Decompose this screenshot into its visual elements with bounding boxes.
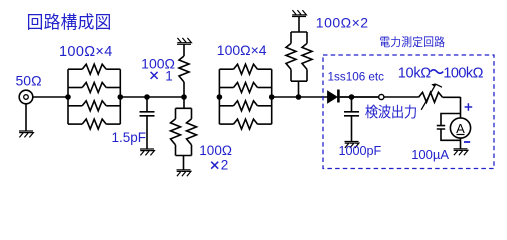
node dot block1 right — [118, 94, 124, 100]
ground below meter — [454, 149, 468, 155]
capacitor 1000pF — [351, 97, 353, 112]
wire VR to meter — [443, 97, 461, 118]
label + — [465, 103, 473, 111]
node dot cap 1.5pF — [144, 94, 150, 100]
svg-text:100µA: 100µA — [411, 147, 449, 162]
ground above 100Ω×2 — [292, 10, 306, 16]
ground above 100Ω×1 — [177, 38, 191, 44]
svg-text:10kΩ: 10kΩ — [398, 65, 431, 81]
ground below 1.5pF — [140, 149, 154, 155]
terminal 検波出力 (open circle) — [379, 94, 384, 99]
ground below 1000pF — [345, 142, 359, 148]
node dot block2 right — [269, 94, 275, 100]
label 検波出力 — [365, 105, 416, 119]
wire connector to ground — [25, 104, 27, 131]
dashed box 電力測定回路 — [323, 55, 494, 169]
wire terminal to potentiometer — [340, 96, 419, 98]
capacitor across meter — [441, 114, 461, 141]
node dot shunt2 — [296, 94, 302, 100]
meter M1 (A) — [450, 118, 470, 138]
svg-text:50Ω: 50Ω — [16, 72, 42, 88]
resistor 100Ω×1 (vertical, to top ground) — [183, 82, 185, 97]
svg-text:1.5pF: 1.5pF — [112, 130, 147, 145]
diode D1 1ss106 — [328, 91, 337, 103]
svg-text:1: 1 — [165, 68, 173, 83]
wire meter to ground — [460, 138, 462, 149]
variable resistor VR1 10kΩ~100kΩ — [419, 92, 443, 102]
svg-text:100Ω: 100Ω — [199, 143, 232, 158]
wire diode to detector node — [340, 96, 379, 98]
svg-text:1ss106 etc: 1ss106 etc — [328, 71, 385, 84]
node dot block1 left — [65, 94, 71, 100]
ground below 100Ω×2 — [177, 170, 191, 176]
wire block2 to shunt2 node — [272, 96, 328, 98]
svg-text:100Ω×4: 100Ω×4 — [217, 42, 267, 58]
label 電力測定回路 — [380, 36, 445, 47]
node dot shunt — [181, 94, 187, 100]
wire block1 to cap node — [120, 96, 184, 98]
svg-text:100Ω×4: 100Ω×4 — [59, 44, 113, 60]
svg-text:100Ω×2: 100Ω×2 — [316, 14, 369, 30]
resistor pair 100Ω×2 (vertical, above line) — [298, 81, 300, 97]
resistor block 100Ω×4 (second) — [219, 69, 271, 124]
svg-text:2: 2 — [221, 158, 229, 173]
resistor block 100Ω×4 (first) — [68, 69, 120, 124]
capacitor 1.5pF — [146, 97, 148, 112]
label - — [464, 141, 470, 143]
connector J1 (coax input) — [19, 90, 33, 104]
node dot detector — [349, 94, 355, 100]
resistor pair 100Ω×2 (vertical, below line) — [183, 97, 185, 108]
svg-text:A: A — [456, 121, 465, 136]
node dot block2 left — [217, 94, 223, 100]
svg-text:1000pF: 1000pF — [339, 144, 382, 158]
wire connector to R-block1 — [33, 96, 68, 98]
title 回路構成図 — [28, 13, 110, 30]
ground below connector — [19, 131, 33, 137]
svg-text:100kΩ: 100kΩ — [443, 65, 483, 81]
